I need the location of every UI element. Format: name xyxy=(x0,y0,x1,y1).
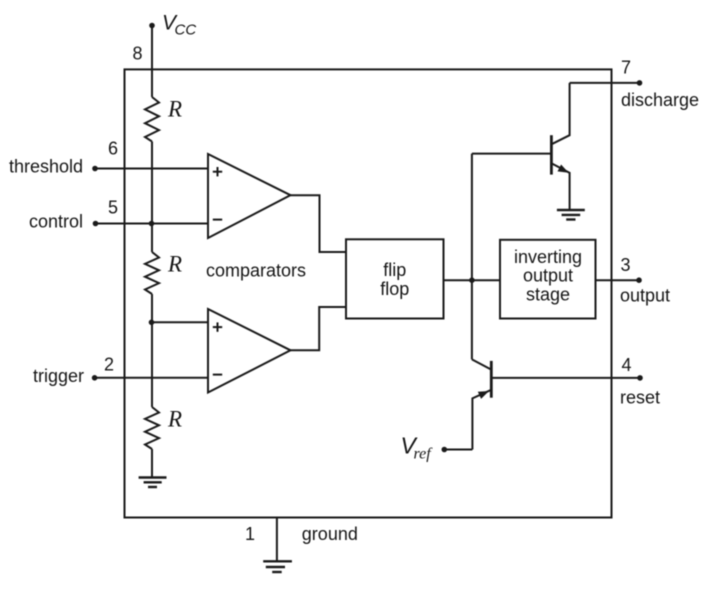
svg-text:6: 6 xyxy=(108,139,118,159)
svg-text:control: control xyxy=(29,212,83,232)
inverting output stage box xyxy=(500,240,596,319)
svg-text:reset: reset xyxy=(620,388,660,408)
ground (Q1 emitter) xyxy=(557,210,585,220)
node output pin 3 (dot) xyxy=(636,277,642,283)
svg-text:stage: stage xyxy=(526,285,570,305)
svg-text:comparators: comparators xyxy=(206,261,306,281)
flip flop box xyxy=(346,239,444,318)
transistor Q1 base bar xyxy=(550,135,553,174)
wire threshold to comparator U1 + input xyxy=(95,168,208,170)
wire pin 1 ground stub xyxy=(276,518,278,562)
svg-text:8: 8 xyxy=(132,44,142,64)
wire R2 to R3 (crosses trigger wire) xyxy=(151,294,153,407)
svg-text:CC: CC xyxy=(175,22,197,39)
svg-text:discharge: discharge xyxy=(621,90,699,110)
wire junction vertical (Q1 base / Q2 collector rail) xyxy=(471,154,473,360)
svg-text:threshold: threshold xyxy=(9,157,83,177)
wire R3 to ground xyxy=(151,449,153,478)
wire pin 7 discharge xyxy=(570,82,640,84)
ground (below R3) xyxy=(139,478,167,488)
wire trigger to comparator U2 - input xyxy=(95,377,208,379)
node threshold pin 6 (dot) xyxy=(92,166,98,172)
svg-text:R: R xyxy=(167,252,182,277)
U1 plus input symbol xyxy=(213,167,222,176)
svg-text:output: output xyxy=(523,266,573,286)
node trigger pin 2 (dot) xyxy=(92,375,98,381)
node control pin 5 (dot) xyxy=(93,221,99,227)
svg-text:3: 3 xyxy=(620,255,630,275)
svg-text:trigger: trigger xyxy=(33,366,84,386)
op-amp U2 (lower comparator) xyxy=(208,309,291,393)
wire output stage to pin 3 xyxy=(596,279,640,281)
wire U1 output to flip flop xyxy=(291,195,347,252)
wire VCC to R1 (pin 8 supply wire) xyxy=(151,26,153,98)
svg-text:R: R xyxy=(167,96,182,121)
resistor R1 xyxy=(145,97,159,142)
svg-text:ground: ground xyxy=(302,524,358,544)
transistor Q1 (discharge) base wire xyxy=(472,153,552,155)
transistor Q2 (reset) collector xyxy=(472,359,491,369)
ground (pin 1) xyxy=(263,561,292,572)
node divider junction to lower comparator xyxy=(149,320,155,326)
svg-text:flop: flop xyxy=(380,279,409,299)
transistor Q1 collector xyxy=(551,83,569,144)
svg-text:7: 7 xyxy=(621,58,631,78)
wire flip flop output to inverting output stage xyxy=(444,279,501,281)
transistor Q2 emitter xyxy=(472,390,491,450)
transistor Q2 base bar xyxy=(490,361,493,398)
op-amp U1 (upper comparator) xyxy=(208,154,291,238)
svg-text:R: R xyxy=(167,406,182,431)
node control junction xyxy=(149,221,155,227)
resistor R3 xyxy=(145,407,159,449)
transistor Q1 emitter xyxy=(551,163,569,210)
svg-text:1: 1 xyxy=(245,524,255,544)
U1 minus input symbol xyxy=(213,219,222,221)
resistor R2 xyxy=(145,252,159,294)
node VCC (dot) xyxy=(149,23,155,29)
wire Q2 base to pin 4 reset xyxy=(491,377,640,379)
wire R1 to R2 (crosses threshold wire) xyxy=(151,142,153,253)
wire divider junction to comparator U2 + input xyxy=(152,321,208,323)
IC boundary box xyxy=(125,69,612,517)
wire Vref to Q2 emitter xyxy=(444,449,472,451)
svg-text:flip: flip xyxy=(383,260,406,280)
wire control to comparator U1 - input xyxy=(96,223,209,225)
node flip flop output junction xyxy=(469,277,475,283)
svg-text:2: 2 xyxy=(104,355,114,375)
svg-text:output: output xyxy=(620,285,670,305)
svg-text:5: 5 xyxy=(108,198,118,218)
node Vref (dot) xyxy=(442,447,448,453)
U2 plus input symbol xyxy=(213,322,222,331)
node discharge pin 7 (dot) xyxy=(637,80,643,86)
transistor Q1 emitter arrow xyxy=(558,165,569,173)
svg-text:ref: ref xyxy=(414,446,434,463)
transistor Q2 emitter arrow xyxy=(478,391,489,399)
node reset pin 4 (dot) xyxy=(637,375,643,381)
svg-text:4: 4 xyxy=(621,355,631,375)
wire U2 output to flip flop xyxy=(291,307,347,350)
svg-text:inverting: inverting xyxy=(514,247,582,267)
U2 minus input symbol xyxy=(213,374,222,376)
